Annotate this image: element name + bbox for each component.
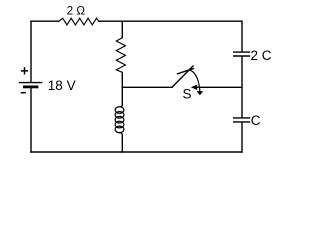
capacitor 2C top plate [234,51,250,53]
arrowhead left at right wire end [191,85,197,90]
svg-text:2 C: 2 C [251,48,272,63]
svg-text:S: S [183,86,192,101]
switch S contact tick [178,69,194,74]
inductor bottom hook [120,133,123,135]
resistor R1 (2 ohm) zigzag [59,18,100,25]
wire left side below battery [30,88,32,153]
switch S motion arc [190,70,200,91]
capacitor 2C bottom plate [234,55,250,57]
wire right side between capacitors [241,57,243,117]
inductor top hook [119,105,122,107]
wire middle horizontal to switch [122,86,172,88]
inductor L1 coil loops [115,107,124,114]
wire bottom [31,151,242,153]
wire middle horizontal right of switch [197,86,242,88]
battery B1 short plate (-) [24,86,37,89]
wire middle branch top stub [121,21,123,37]
wire middle branch between resistor and inductor [121,72,123,105]
svg-text:C: C [251,113,261,128]
wire right side below capacitor C [241,123,243,152]
svg-text:18 V: 18 V [48,78,76,93]
wire top-left segment [31,20,59,22]
battery B1 long plate (+) [20,82,42,84]
battery plus sign [21,67,28,74]
arrowhead down at arc end [197,91,204,95]
wire top-right segment [99,20,242,22]
wire left side above battery [30,21,32,82]
switch S blade [172,66,193,87]
wire middle branch below inductor [121,135,123,152]
battery minus sign [21,92,26,94]
wire right side above capacitor 2C [241,21,243,51]
capacitor C bottom plate [234,121,250,123]
capacitor C top plate [234,117,250,119]
resistor R2 vertical zigzag [116,38,125,73]
svg-text:2 Ω: 2 Ω [67,6,86,18]
